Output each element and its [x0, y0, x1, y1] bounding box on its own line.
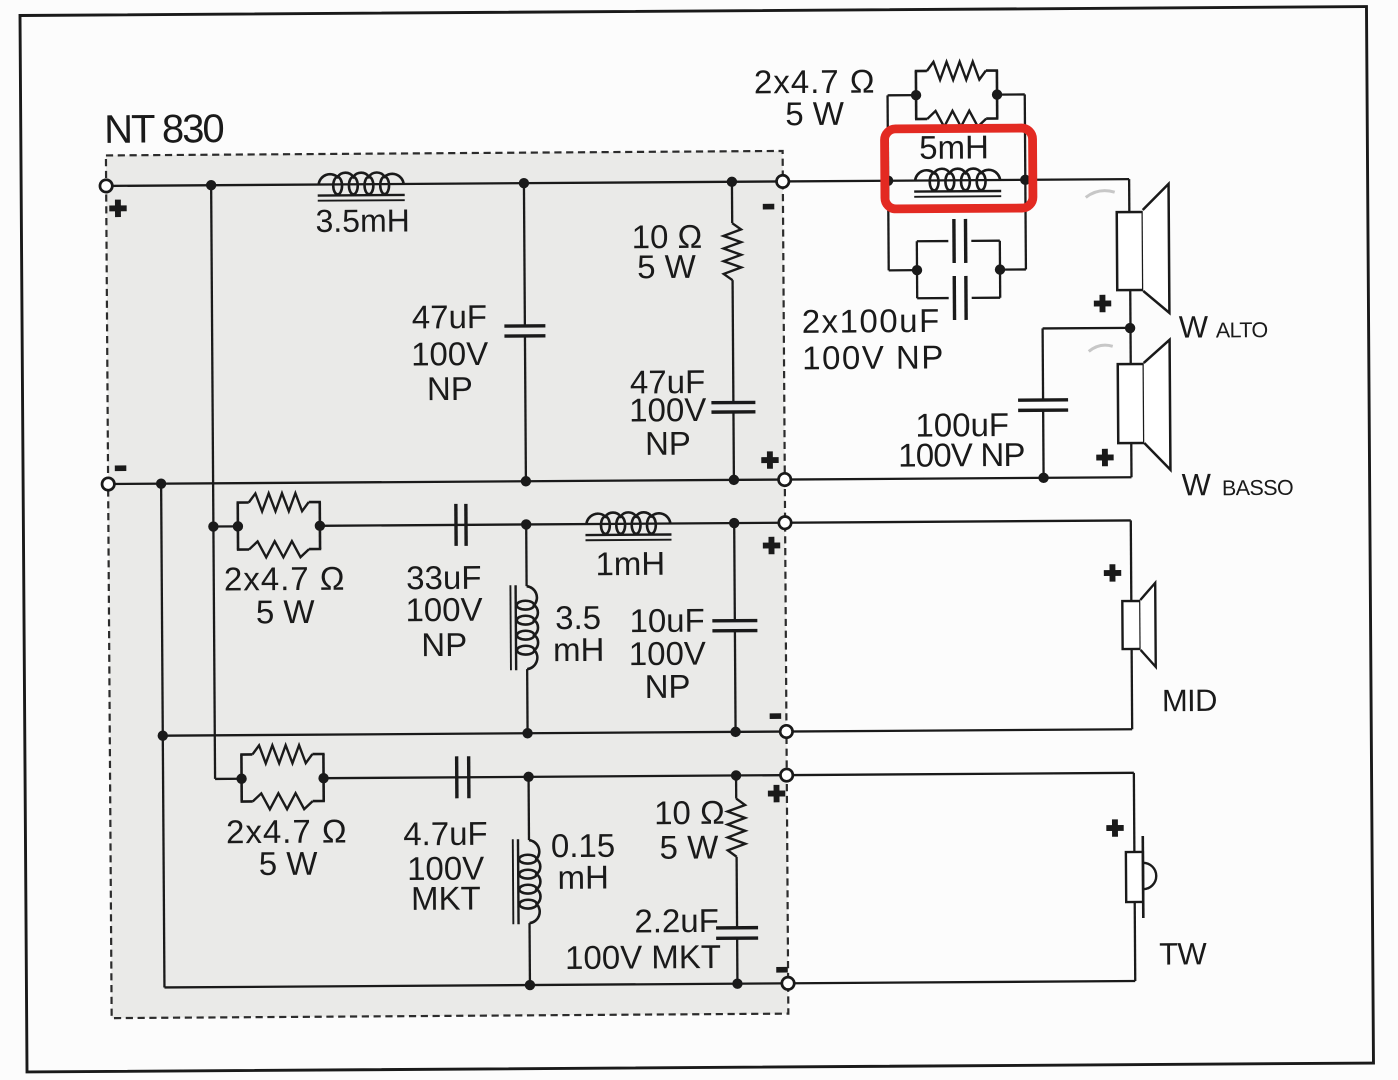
svg-text:W: W — [1179, 309, 1209, 344]
svg-text:100V MKT: 100V MKT — [565, 938, 721, 976]
svg-text:2x4.7 Ω: 2x4.7 Ω — [224, 560, 346, 598]
svg-text:MID: MID — [1162, 683, 1217, 718]
svg-text:100V NP: 100V NP — [802, 338, 945, 376]
svg-text:5 W: 5 W — [256, 593, 316, 630]
svg-text:NT 830: NT 830 — [104, 107, 223, 152]
svg-text:4.7uF: 4.7uF — [403, 815, 488, 853]
svg-text:2x100uF: 2x100uF — [802, 302, 941, 340]
svg-text:ALTO: ALTO — [1216, 318, 1268, 342]
svg-text:5 W: 5 W — [785, 95, 845, 132]
svg-text:mH: mH — [557, 859, 609, 896]
svg-text:2.2uF: 2.2uF — [634, 902, 719, 940]
svg-text:10uF: 10uF — [629, 602, 704, 639]
svg-text:5 W: 5 W — [659, 828, 719, 865]
svg-text:47uF: 47uF — [412, 298, 487, 335]
svg-text:3.5mH: 3.5mH — [315, 202, 409, 239]
svg-text:NP: NP — [421, 626, 467, 663]
svg-text:TW: TW — [1159, 936, 1207, 971]
svg-text:NP: NP — [645, 425, 691, 462]
svg-text:5mH: 5mH — [919, 128, 989, 165]
svg-text:100V: 100V — [405, 591, 482, 629]
svg-text:W: W — [1182, 467, 1212, 502]
svg-text:BASSO: BASSO — [1222, 476, 1293, 500]
svg-text:100V NP: 100V NP — [898, 436, 1025, 474]
svg-text:1mH: 1mH — [595, 545, 665, 582]
svg-text:5 W: 5 W — [259, 845, 319, 882]
svg-text:mH: mH — [553, 631, 605, 668]
svg-text:MKT: MKT — [411, 879, 481, 916]
svg-text:10 Ω: 10 Ω — [654, 794, 725, 831]
svg-text:NP: NP — [427, 370, 473, 407]
svg-text:100V: 100V — [629, 635, 706, 673]
svg-text:NP: NP — [645, 668, 691, 705]
svg-text:5 W: 5 W — [637, 248, 697, 285]
svg-text:100V: 100V — [411, 335, 488, 373]
svg-text:100V: 100V — [629, 391, 706, 429]
